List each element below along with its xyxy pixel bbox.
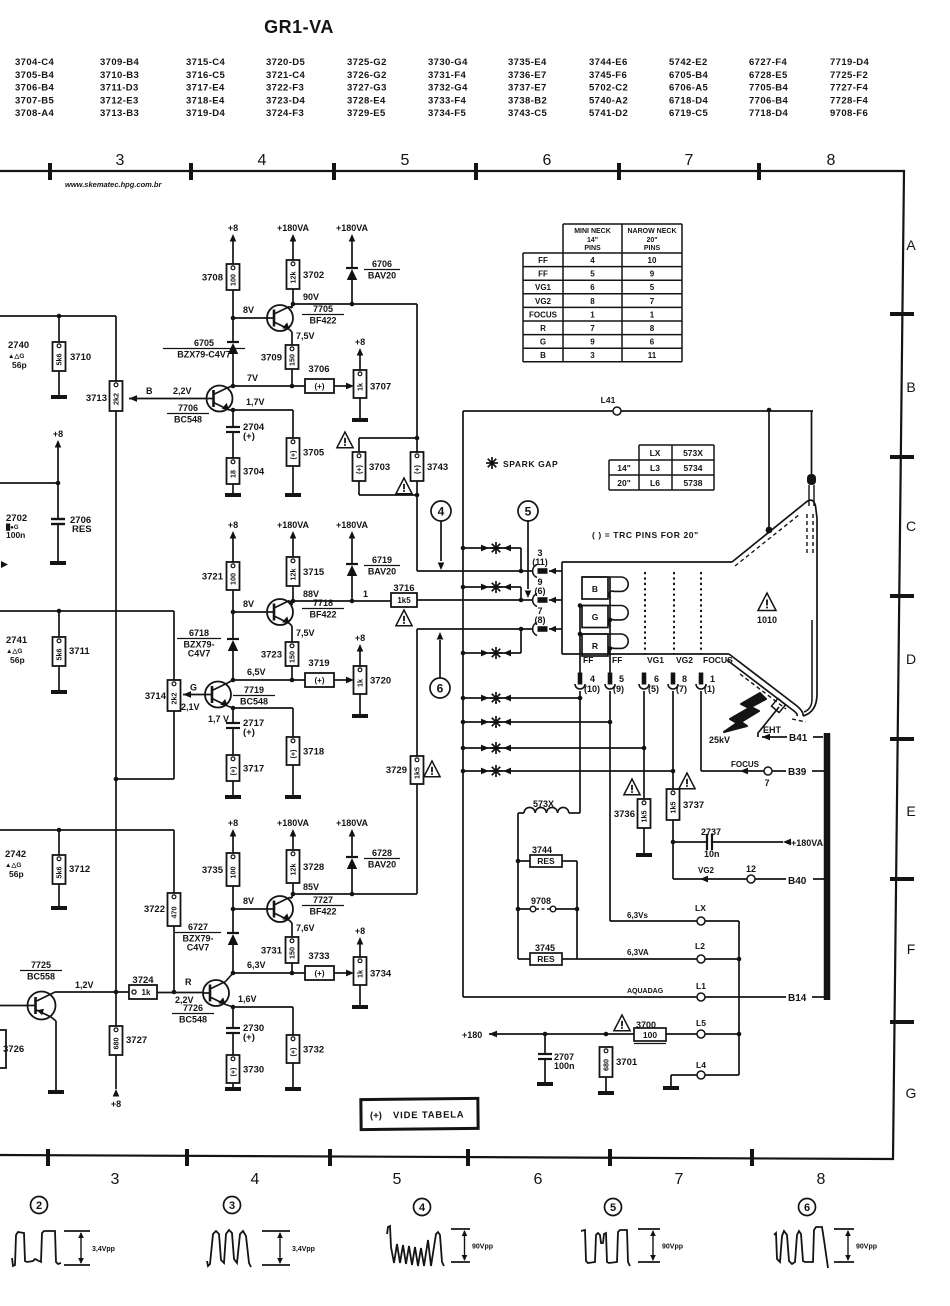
svg-text:3737-E7: 3737-E7 (508, 83, 547, 94)
svg-text:3708: 3708 (202, 273, 223, 284)
svg-text:3733-F4: 3733-F4 (428, 95, 467, 106)
svg-text:+8: +8 (228, 223, 238, 233)
wire FF1 vertical (579, 606, 581, 675)
pin VG1 6(5) (642, 673, 646, 684)
svg-text:3731: 3731 (261, 946, 283, 957)
svg-text:8V: 8V (243, 896, 254, 906)
svg-text:6,3Vs: 6,3Vs (627, 911, 648, 920)
svg-text:(+): (+) (243, 727, 255, 738)
svg-text:(1): (1) (704, 684, 715, 694)
svg-text:3744: 3744 (532, 845, 552, 855)
svg-text:18: 18 (229, 470, 238, 478)
ground (352, 1005, 368, 1009)
svg-text:3714: 3714 (145, 691, 167, 702)
svg-text:6,3V: 6,3V (247, 960, 266, 970)
waveform node 6 (799, 1199, 816, 1216)
svg-text:3711-D3: 3711-D3 (100, 83, 139, 94)
svg-text:+8: +8 (228, 818, 238, 828)
wire anode box outline (463, 410, 613, 412)
wire arrow to shunt resistor (334, 972, 347, 974)
svg-text:6719: 6719 (372, 555, 392, 565)
svg-text:7: 7 (650, 297, 655, 306)
svg-text:56p: 56p (12, 360, 27, 370)
svg-text:2702: 2702 (6, 513, 27, 524)
wire stub arrow left edge (1, 561, 8, 568)
svg-text:BAV20: BAV20 (368, 567, 396, 577)
svg-text:6728-E5: 6728-E5 (749, 70, 788, 81)
svg-text:12: 12 (746, 864, 756, 874)
CRT funnel outline (732, 500, 817, 716)
warning triangle (679, 773, 695, 789)
svg-text:G: G (540, 338, 546, 347)
svg-text:2742: 2742 (5, 849, 26, 860)
capacitor 2730 (+) (232, 1007, 234, 1028)
svg-text:3706-B4: 3706-B4 (15, 83, 55, 94)
node 1,2V line (55, 991, 129, 993)
svg-text:L6: L6 (650, 478, 660, 488)
svg-text:B40: B40 (788, 876, 807, 887)
ground (285, 493, 301, 497)
svg-text:+180VA: +180VA (336, 223, 369, 233)
svg-text:3705-B4: 3705-B4 (15, 70, 55, 81)
collector line 90V (292, 303, 417, 305)
svg-text:3,4Vpp: 3,4Vpp (92, 1246, 115, 1253)
svg-text:(+): (+) (413, 464, 422, 474)
svg-text:(+): (+) (355, 464, 364, 474)
svg-text:+8: +8 (111, 1099, 121, 1109)
resistor 3705 (+) feedback (292, 410, 294, 438)
capacitor 2704 (+) (232, 410, 234, 427)
svg-text:5k6: 5k6 (55, 649, 64, 661)
wire EHT (758, 707, 779, 737)
svg-text:100: 100 (229, 573, 238, 585)
svg-text:BF422: BF422 (309, 610, 336, 620)
pin FF 4(10) (578, 673, 582, 684)
svg-text:3705: 3705 (303, 448, 325, 459)
svg-text:3723-D4: 3723-D4 (266, 95, 306, 106)
warning triangle (337, 432, 353, 448)
svg-text:FF: FF (583, 655, 593, 665)
svg-text:L5: L5 (696, 1018, 706, 1028)
svg-text:(+): (+) (289, 450, 298, 460)
ground (225, 1087, 241, 1091)
wire ladder left rail (517, 813, 519, 959)
wire R output vertical (416, 784, 418, 894)
svg-text:BC558: BC558 (27, 972, 55, 982)
svg-text:3722-F3: 3722-F3 (266, 83, 304, 94)
ground (537, 1082, 553, 1086)
resistor 3720 1k (354, 666, 367, 694)
bus bar EHT (824, 733, 831, 1000)
wire (292, 883, 294, 894)
svg-text:3738-B2: 3738-B2 (508, 95, 547, 106)
svg-text:8: 8 (827, 152, 836, 169)
warning triangle (424, 761, 440, 777)
svg-text:3707-B5: 3707-B5 (15, 95, 55, 106)
resistor 3736 1k5 (638, 799, 651, 828)
svg-text:(+): (+) (315, 676, 325, 685)
svg-text:3729-E5: 3729-E5 (347, 108, 386, 119)
svg-text:1k: 1k (142, 988, 151, 997)
node G input line (0, 610, 174, 612)
emitter line 1,6V (233, 1006, 293, 1008)
svg-text:90V: 90V (303, 292, 319, 302)
node B41 (787, 730, 813, 742)
svg-text:C4V7: C4V7 (187, 943, 210, 953)
svg-text:7725: 7725 (31, 960, 51, 970)
zener 6718 (232, 612, 234, 639)
svg-text:3720-D5: 3720-D5 (266, 57, 306, 68)
svg-text:1k5: 1k5 (413, 767, 422, 779)
svg-text:25kV: 25kV (709, 735, 730, 745)
svg-text:B: B (592, 584, 598, 594)
resistor 3715 (287, 557, 300, 586)
zener 6705 (232, 318, 234, 342)
table tube types (639, 444, 714, 446)
svg-text:( ) = TRC PINS FOR 20": ( ) = TRC PINS FOR 20" (592, 530, 699, 540)
svg-text:L4: L4 (696, 1060, 706, 1070)
frame border (0, 171, 904, 1159)
svg-text:G: G (906, 1085, 917, 1101)
svg-text:5738: 5738 (684, 478, 703, 488)
waveform node 2 (31, 1197, 48, 1214)
svg-text:3709: 3709 (261, 353, 282, 364)
svg-text:3719-D4: 3719-D4 (186, 108, 226, 119)
svg-text:FOCUS: FOCUS (731, 760, 760, 769)
spark gap VG1 (461, 746, 466, 751)
svg-text:7726: 7726 (183, 1003, 203, 1013)
ground (51, 690, 67, 694)
pin VG2 8(7) (671, 673, 675, 684)
svg-text:7,5V: 7,5V (296, 628, 315, 638)
svg-text:1k: 1k (356, 679, 365, 687)
node L1 AQUADAG line (463, 996, 697, 998)
svg-text:BC548: BC548 (179, 1015, 207, 1025)
svg-text:3727-G3: 3727-G3 (347, 83, 387, 94)
resistor 3743 (+) (416, 438, 418, 452)
svg-text:14": 14" (587, 237, 598, 244)
svg-text:1k: 1k (356, 970, 365, 978)
svg-text:9: 9 (590, 338, 595, 347)
anode contact (771, 698, 785, 712)
node 4 marker (431, 501, 451, 521)
svg-text:2737: 2737 (701, 827, 721, 837)
ground (285, 795, 301, 799)
svg-text:6: 6 (654, 674, 659, 684)
svg-text:E: E (906, 803, 915, 819)
svg-text:1: 1 (650, 310, 655, 319)
wire (292, 586, 294, 601)
ground (352, 714, 368, 718)
wire R cathode line (417, 628, 532, 630)
svg-text:5: 5 (393, 1171, 402, 1188)
resistor 3721 (227, 562, 240, 590)
svg-text:11: 11 (648, 351, 657, 360)
wire B output vertical (416, 304, 418, 438)
spark gap R (461, 651, 466, 656)
svg-text:BF422: BF422 (309, 316, 336, 326)
svg-text:3701: 3701 (616, 1057, 638, 1068)
svg-text:3715: 3715 (303, 567, 325, 578)
+8 supply below 3727 (113, 1089, 120, 1097)
waveform node 3 (224, 1197, 241, 1214)
resistor 3712 5k6 (58, 830, 60, 855)
dashed grid VG2 (673, 572, 675, 654)
svg-text:(5): (5) (648, 684, 659, 694)
resistor 3701 680 (600, 1047, 613, 1077)
svg-text:3704: 3704 (243, 467, 265, 478)
svg-text:+8: +8 (355, 633, 365, 643)
svg-text:100: 100 (229, 867, 238, 879)
svg-text:6: 6 (650, 338, 655, 347)
svg-text:8: 8 (590, 297, 595, 306)
svg-text:7706: 7706 (178, 403, 198, 413)
svg-text:90Vpp: 90Vpp (856, 1244, 877, 1251)
svg-text:BAV20: BAV20 (368, 860, 396, 870)
svg-text:MINI NECK: MINI NECK (574, 228, 611, 235)
ground (51, 395, 67, 399)
svg-text:3732: 3732 (303, 1045, 324, 1056)
warning triangle (396, 610, 412, 626)
wire B cathode line (416, 495, 418, 571)
svg-text:3: 3 (116, 152, 125, 169)
svg-text:5: 5 (525, 504, 532, 518)
svg-text:88V: 88V (303, 589, 319, 599)
mid line 7V (233, 385, 305, 387)
svg-text:9: 9 (650, 270, 655, 279)
svg-text:7: 7 (685, 152, 694, 169)
svg-text:12k: 12k (289, 569, 298, 581)
svg-text:3710-B3: 3710-B3 (100, 70, 139, 81)
svg-text:2k2: 2k2 (170, 693, 179, 705)
capacitor 2737 10n (671, 840, 676, 845)
svg-text:+8: +8 (355, 337, 365, 347)
svg-text:(+): (+) (315, 969, 325, 978)
svg-text:3744-E6: 3744-E6 (589, 57, 628, 68)
svg-text:100: 100 (643, 1030, 657, 1040)
wire to ground (359, 985, 361, 1005)
svg-text:+180VA: +180VA (336, 818, 369, 828)
ground (50, 561, 66, 565)
svg-text:8V: 8V (243, 305, 254, 315)
resistor 3732 (+) feedback (292, 1007, 294, 1035)
svg-text:3723: 3723 (261, 650, 282, 661)
svg-text:1k5: 1k5 (640, 811, 649, 823)
svg-text:8V: 8V (243, 599, 254, 609)
svg-text:6727-F4: 6727-F4 (749, 57, 788, 68)
svg-text:6728: 6728 (372, 848, 392, 858)
svg-text:3731-F4: 3731-F4 (428, 70, 467, 81)
svg-text:RES: RES (537, 954, 555, 964)
svg-text:3718-E4: 3718-E4 (186, 95, 225, 106)
svg-text:3711: 3711 (69, 646, 90, 657)
svg-text:2: 2 (36, 1200, 42, 1212)
wire to ground (359, 398, 361, 418)
svg-text:3729: 3729 (386, 765, 407, 776)
capacitor 2707 100n (544, 1034, 546, 1054)
svg-text:3730: 3730 (243, 1065, 264, 1076)
svg-text:3745: 3745 (535, 943, 555, 953)
svg-text:R: R (540, 324, 546, 333)
svg-text:L3: L3 (650, 463, 660, 473)
svg-text:7,6V: 7,6V (296, 923, 315, 933)
svg-text:R: R (592, 641, 598, 651)
svg-text:8: 8 (817, 1171, 826, 1188)
wire R 3722 branch (173, 830, 175, 893)
svg-text:4: 4 (590, 674, 595, 684)
svg-text:(+): (+) (243, 1032, 255, 1043)
node 5 marker (518, 501, 538, 521)
wire bias vertical (115, 316, 117, 381)
svg-text:3720: 3720 (370, 676, 391, 687)
resistor 3727 680 (110, 1026, 123, 1055)
svg-text:7705-B4: 7705-B4 (749, 83, 789, 94)
svg-text:6: 6 (543, 152, 552, 169)
svg-text:6719-C5: 6719-C5 (669, 108, 709, 119)
resistor 3704 (227, 458, 240, 484)
svg-text:NAROW NECK: NAROW NECK (628, 228, 677, 235)
zener 6727 (232, 909, 234, 933)
svg-text:7: 7 (764, 778, 769, 788)
flash 25kV (724, 693, 766, 732)
resistor 3714 2k2 (168, 680, 181, 711)
svg-text:1k5: 1k5 (397, 596, 411, 605)
svg-text:3710: 3710 (70, 352, 91, 363)
svg-text:(+): (+) (289, 749, 298, 759)
wire (232, 590, 234, 612)
svg-text:3,4Vpp: 3,4Vpp (292, 1246, 315, 1253)
svg-text:150: 150 (288, 354, 297, 366)
wire 7725 emitter (51, 1017, 56, 1021)
wire FF2 vertical (609, 577, 611, 674)
diode 6706 BAV20 (346, 267, 358, 269)
gun G (582, 606, 608, 628)
resistor 3735 (227, 853, 240, 886)
svg-text:G: G (592, 612, 599, 622)
resistor 3730 (227, 1055, 240, 1083)
svg-text:6,3VA: 6,3VA (627, 948, 649, 957)
svg-text:▲△G: ▲△G (6, 648, 23, 655)
CRT aquadag dashes (735, 514, 800, 566)
svg-text:5740-A2: 5740-A2 (589, 95, 628, 106)
svg-text:(+): (+) (289, 1047, 298, 1057)
svg-text:3706: 3706 (308, 364, 329, 375)
svg-text:BC548: BC548 (240, 697, 268, 707)
svg-text:R: R (185, 977, 192, 987)
svg-text:(10): (10) (584, 684, 600, 694)
warning triangle (396, 478, 412, 494)
svg-text:150: 150 (288, 947, 297, 959)
spark gap G (461, 585, 466, 590)
wire G 3714 branch (173, 611, 175, 680)
wire heater bus vertical (738, 921, 740, 1075)
resistor 3713 2k2 (110, 381, 123, 411)
warning triangle (614, 1015, 630, 1031)
wire aquadag ground (767, 408, 772, 413)
wire ladder right rail (576, 861, 578, 959)
svg-text:1010: 1010 (757, 615, 777, 625)
svg-text:9708: 9708 (531, 896, 551, 906)
svg-text:+8: +8 (228, 520, 238, 530)
svg-text:14": 14" (617, 463, 631, 473)
svg-text:5: 5 (401, 152, 410, 169)
emitter line 1,7 V (233, 707, 293, 709)
resistor 3722 470 (168, 893, 181, 926)
svg-text:LX: LX (650, 448, 661, 458)
svg-text:7719-D4: 7719-D4 (830, 57, 870, 68)
transistor 7727 BF422 (267, 896, 293, 922)
legend spark gap (486, 462, 498, 464)
capacitor 2717 (+) (232, 708, 234, 723)
emitter line 1,7V (233, 409, 293, 411)
svg-text:+180VA: +180VA (791, 838, 824, 848)
svg-text:PINS: PINS (644, 245, 661, 252)
svg-text:(+): (+) (243, 431, 255, 442)
svg-text:3708-A4: 3708-A4 (15, 108, 55, 119)
svg-text:12k: 12k (289, 272, 298, 284)
gun R (582, 634, 608, 656)
transistor 7718 BF422 (267, 599, 293, 625)
svg-text:8: 8 (682, 674, 687, 684)
svg-text:1: 1 (710, 674, 715, 684)
svg-text:VG1: VG1 (647, 655, 664, 665)
ground (225, 795, 241, 799)
svg-text:56p: 56p (10, 655, 25, 665)
svg-text:+180VA: +180VA (277, 520, 310, 530)
svg-text:3704-C4: 3704-C4 (15, 57, 55, 68)
wire arrow to shunt resistor (334, 679, 347, 681)
svg-text:6: 6 (804, 1202, 810, 1214)
node B40 VG2 line (672, 842, 674, 879)
svg-text:+180VA: +180VA (277, 223, 310, 233)
svg-text:3724-F3: 3724-F3 (266, 108, 304, 119)
svg-text:PINS: PINS (584, 245, 601, 252)
transistor 7706 BC548 (207, 386, 233, 412)
svg-text:FF: FF (612, 655, 622, 665)
ground (598, 1091, 614, 1095)
svg-text:3718: 3718 (303, 747, 324, 758)
node G base arrow (183, 691, 191, 698)
svg-text:1,6V: 1,6V (238, 994, 257, 1004)
svg-text:6706: 6706 (372, 259, 392, 269)
svg-text:5k6: 5k6 (55, 354, 64, 366)
svg-text:RES: RES (537, 856, 555, 866)
svg-text:C4V7: C4V7 (188, 649, 211, 659)
svg-text:56p: 56p (9, 869, 24, 879)
svg-text:5: 5 (590, 270, 595, 279)
resistor 3702 (287, 260, 300, 289)
svg-text:85V: 85V (303, 882, 319, 892)
svg-text:3726-G2: 3726-G2 (347, 70, 387, 81)
svg-text:9708-F6: 9708-F6 (830, 108, 868, 119)
svg-text:3735: 3735 (202, 865, 224, 876)
svg-text:3728: 3728 (303, 862, 324, 873)
svg-text:6705: 6705 (194, 338, 214, 348)
svg-text:+180VA: +180VA (277, 818, 310, 828)
svg-text:2k2: 2k2 (112, 393, 121, 405)
svg-text:2740: 2740 (8, 340, 29, 351)
svg-text:3730-G4: 3730-G4 (428, 57, 468, 68)
svg-text:5741-D2: 5741-D2 (589, 108, 628, 119)
svg-text:4: 4 (258, 152, 267, 169)
svg-text:www.skematec.hpg.com.br: www.skematec.hpg.com.br (65, 180, 162, 189)
svg-text:7,5V: 7,5V (296, 331, 315, 341)
svg-text:150: 150 (288, 651, 297, 663)
svg-text:3712-E3: 3712-E3 (100, 95, 139, 106)
dashed grid VG1 (644, 572, 646, 654)
svg-text:(+): (+) (370, 1110, 382, 1121)
svg-text:3743-C5: 3743-C5 (508, 108, 548, 119)
